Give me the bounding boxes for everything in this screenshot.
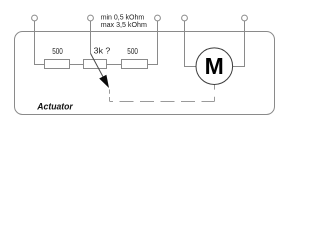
label Actuator xyxy=(36,101,73,111)
annotation min resistance xyxy=(101,13,145,22)
dashed feedback wire vertical from arrow xyxy=(109,90,111,102)
wire R1 to R2 xyxy=(70,64,84,66)
svg-text:500: 500 xyxy=(52,46,63,56)
wiper arm line xyxy=(91,53,106,80)
resistor R3 body xyxy=(122,60,148,69)
value label 3k ? (R2) xyxy=(94,46,111,55)
dashed feedback wire horizontal xyxy=(110,101,215,103)
terminal 3 xyxy=(155,15,161,21)
svg-text:max 3,5 kOhm: max 3,5 kOhm xyxy=(101,20,147,29)
svg-text:500: 500 xyxy=(127,46,138,56)
potentiometer R2 body xyxy=(84,60,107,69)
terminal 2 (wiper) xyxy=(88,15,94,21)
motor M1 circle xyxy=(196,48,233,85)
wiper arrowhead xyxy=(99,75,109,88)
value label 500 (R3) xyxy=(127,46,138,56)
terminal 5 xyxy=(242,15,248,21)
svg-text:M: M xyxy=(205,53,224,79)
dashed feedback wire vertical to motor xyxy=(214,85,216,102)
svg-text:Actuator: Actuator xyxy=(36,101,73,111)
svg-text:3k ?: 3k ? xyxy=(94,46,111,55)
wire terminal 1 to R1 xyxy=(35,21,45,65)
wire terminal 4 to motor xyxy=(185,21,197,67)
value label 500 (R1) xyxy=(52,46,63,56)
annotation max resistance xyxy=(101,20,147,29)
terminal 1 xyxy=(32,15,38,21)
wire terminal 2 stem xyxy=(90,21,92,54)
resistor R1 body xyxy=(45,60,70,69)
actuator enclosure box xyxy=(15,32,275,115)
motor letter M xyxy=(205,53,224,79)
wire terminal 3 to R3 xyxy=(148,21,158,65)
wire R2 to R3 xyxy=(107,64,122,66)
wire terminal 5 to motor xyxy=(233,21,245,67)
terminal 4 xyxy=(182,15,188,21)
